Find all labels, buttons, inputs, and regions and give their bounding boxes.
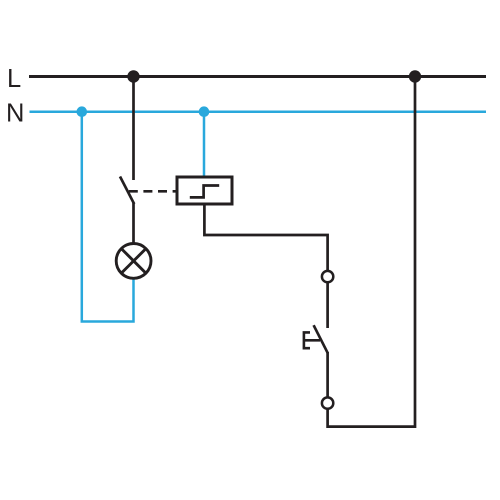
step-function symbol inside timer bbox=[190, 186, 219, 198]
push-button S1 blade bbox=[314, 325, 328, 353]
wire contact to lamp bbox=[132, 203, 135, 245]
wire L drop to contact bbox=[132, 77, 135, 181]
wire neutral branch to timer relay (blue) bbox=[203, 112, 206, 177]
node junction on L at contact drop bbox=[127, 70, 139, 82]
node junction on N at lamp branch bbox=[77, 106, 88, 117]
terminal circle lower bbox=[322, 397, 333, 408]
node junction on N at timer branch bbox=[199, 106, 210, 117]
wire N bus (blue) bbox=[30, 110, 487, 113]
node junction on L at return wire bbox=[409, 70, 421, 82]
wire push-button to lower terminal bbox=[326, 352, 329, 397]
wire return to L bbox=[328, 77, 415, 427]
terminal circle upper bbox=[322, 271, 333, 282]
wire timer output to upper terminal bbox=[204, 204, 327, 271]
wire L bus bbox=[29, 75, 486, 78]
relay contact blade K1 bbox=[120, 177, 134, 205]
push-button actuator bbox=[304, 332, 320, 348]
lamp E1 bbox=[116, 244, 151, 279]
svg-text:L: L bbox=[7, 65, 21, 93]
svg-text:N: N bbox=[6, 100, 24, 128]
mechanical link (dashed) contact to timer bbox=[129, 190, 178, 193]
timer relay box K1 bbox=[177, 177, 232, 204]
wire upper terminal to push-button bbox=[326, 282, 329, 328]
wire neutral branch to lamp return (blue) bbox=[82, 112, 134, 322]
